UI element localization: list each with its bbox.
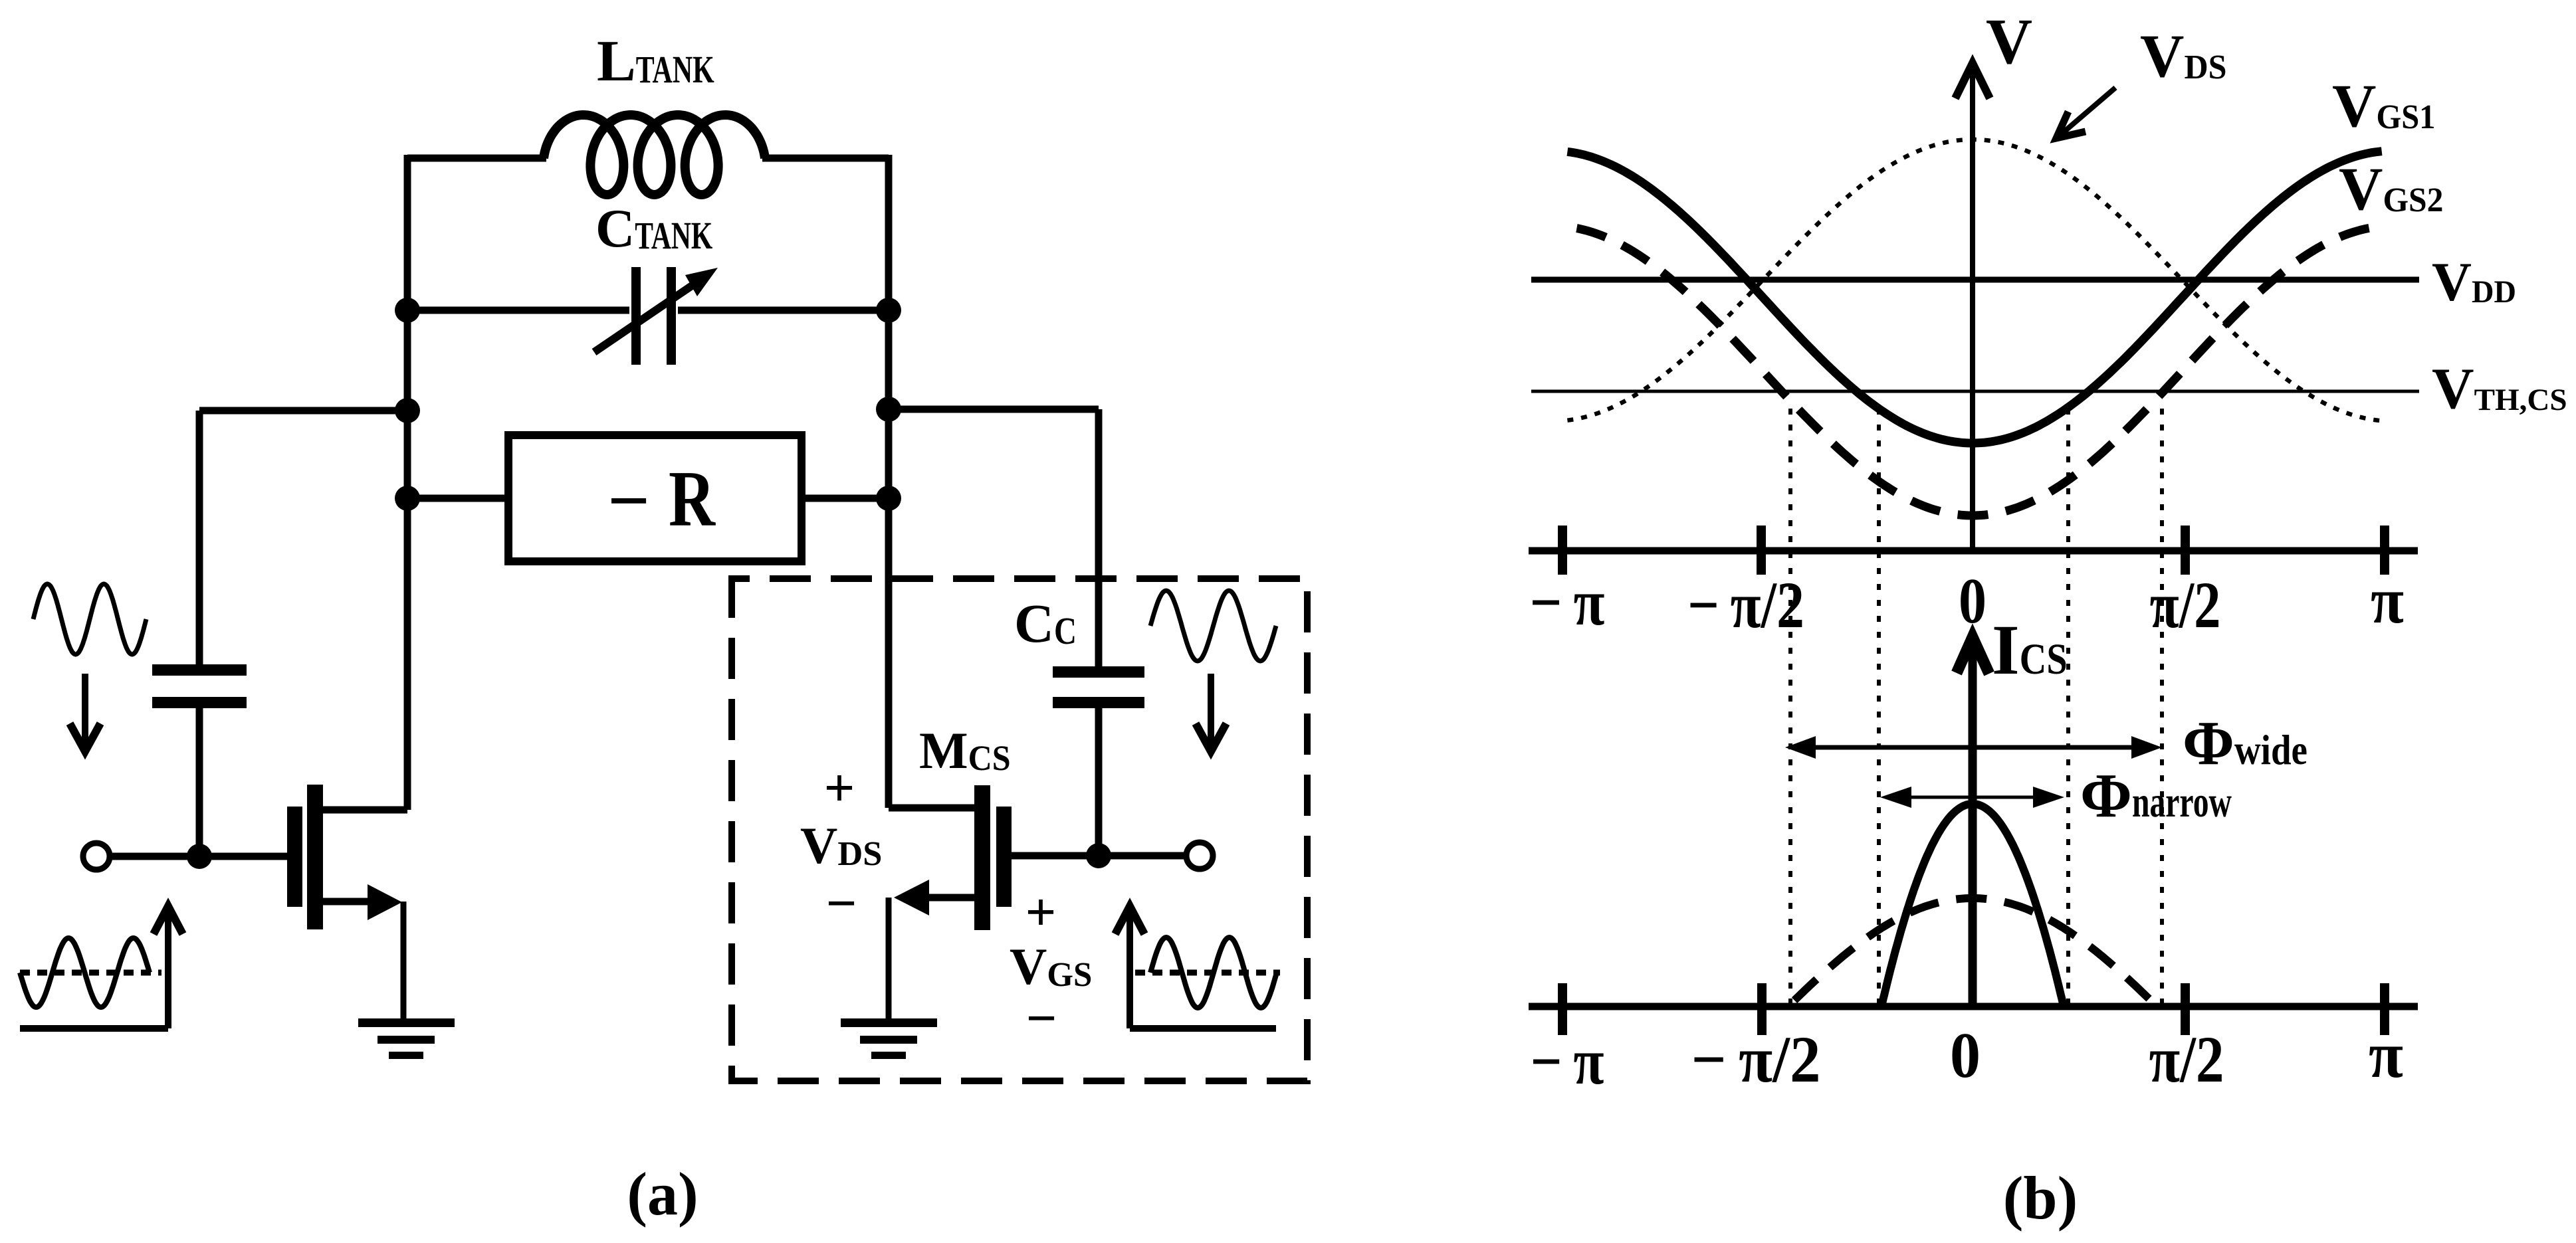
svg-text:+: + <box>1025 882 1057 942</box>
svg-text:−: − <box>1026 988 1057 1048</box>
svg-text:− π: − π <box>1530 565 1605 639</box>
svg-text:0: 0 <box>1959 565 1986 637</box>
svg-text:π: π <box>2371 563 2404 637</box>
svg-text:− π: − π <box>1531 1024 1604 1098</box>
svg-text:π: π <box>2369 1018 2403 1092</box>
svg-text:(b): (b) <box>2003 1164 2078 1232</box>
svg-text:V: V <box>1986 6 2032 77</box>
svg-text:R: R <box>669 454 716 543</box>
svg-text:− π/2: − π/2 <box>1691 1022 1821 1096</box>
svg-text:π/2: π/2 <box>2149 1022 2224 1096</box>
svg-text:0: 0 <box>1950 1020 1981 1092</box>
svg-text:+: + <box>824 757 855 818</box>
svg-text:−: − <box>826 873 857 933</box>
svg-text:− π/2: − π/2 <box>1687 568 1804 642</box>
svg-text:π/2: π/2 <box>2150 568 2221 642</box>
svg-text:−: − <box>607 460 650 542</box>
svg-text:(a): (a) <box>627 1160 698 1228</box>
